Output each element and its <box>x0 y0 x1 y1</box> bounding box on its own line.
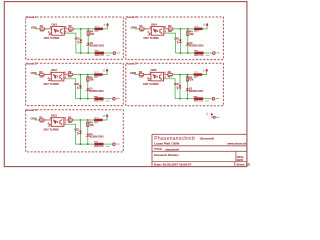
junction bottom zener <box>87 98 89 100</box>
wire LED branch vertical <box>79 120 81 144</box>
op-amp / optocoupler OK2 body <box>51 72 64 81</box>
pad label <box>117 52 120 55</box>
net name OUT3 <box>106 145 110 148</box>
svg-text:OK5: OK5 <box>151 68 157 72</box>
OK3 internal phototransistor <box>60 119 62 125</box>
label Kanal 5 <box>126 62 135 65</box>
+5V supply feed symbol <box>206 112 208 115</box>
resistor R4 (base) vertical <box>87 31 89 35</box>
ground symbol at OK5 pin 2 <box>148 80 151 82</box>
svg-text:BZX55-C5V1: BZX55-C5V1 <box>90 44 105 47</box>
+5V label <box>203 69 205 72</box>
label Kanal 3 <box>26 108 35 111</box>
wire CN3 input <box>35 119 40 121</box>
wire R2 to +5V rail <box>173 28 195 30</box>
junction bottom LED <box>179 98 181 100</box>
wire R3 to +5V arrow <box>202 72 207 75</box>
label Kanal 1 <box>26 16 35 19</box>
svg-text:Sheet: 2/2: Sheet: 2/2 <box>236 163 250 167</box>
svg-text:Kanal 1: Kanal 1 <box>26 15 37 19</box>
wire OK4 collector to R2 <box>164 28 168 30</box>
pin 2 stub to ground <box>49 78 51 80</box>
wire R3 to +5V arrow <box>102 72 107 75</box>
ground symbol at OK3 pin 2 <box>48 125 51 127</box>
junction bottom LED <box>80 143 82 145</box>
+5V label <box>104 23 106 26</box>
junction bottom zener <box>187 52 189 54</box>
junction node LED branch <box>180 28 182 30</box>
LED LED5 <box>179 85 182 88</box>
+5V supply arrow <box>106 23 109 26</box>
OK1 internal phototransistor <box>60 28 62 34</box>
wire R5 to pad <box>203 98 212 100</box>
svg-text:OK1: OK1 <box>51 22 57 26</box>
LED LED4 <box>179 40 182 43</box>
svg-text:10k: 10k <box>90 33 95 36</box>
+5V supply arrow <box>205 68 208 71</box>
junction node zener branch <box>187 74 189 76</box>
OK1 internal LED symbol <box>53 29 56 33</box>
resistor R3 (pull-up) <box>194 28 202 30</box>
pad label <box>216 97 219 100</box>
svg-text:BZX55-C5V1: BZX55-C5V1 <box>90 90 105 93</box>
resistor R3 (pull-up) <box>95 28 103 30</box>
svg-text:OK4: OK4 <box>151 22 157 26</box>
svg-text:10k: 10k <box>90 79 95 82</box>
bottom wire to output <box>76 52 95 54</box>
net name OUT5 <box>205 100 209 103</box>
op-amp / optocoupler OK1 body <box>52 27 65 36</box>
wire R3 to +5V arrow <box>103 26 108 29</box>
junction bottom LED <box>180 52 182 54</box>
wire zener branch vertical <box>186 75 188 99</box>
junction node LED branch <box>80 74 82 76</box>
resistor R2 (series) <box>168 28 173 30</box>
wire LED branch vertical <box>80 29 82 53</box>
wire OK2 collector to R2 <box>64 74 68 76</box>
+5V label <box>103 114 105 117</box>
svg-text:LED: LED <box>74 83 79 86</box>
zener diode D2 <box>87 88 90 90</box>
bottom wire to output <box>176 52 195 54</box>
wire R3 to +5V arrow <box>202 26 207 29</box>
svg-text:BZX55-C5V1: BZX55-C5V1 <box>190 44 205 47</box>
junction node zener branch <box>87 28 89 30</box>
wire zener branch vertical <box>87 75 89 99</box>
resistor R4 (base) vertical <box>87 77 89 81</box>
wire CN4 input <box>135 28 140 30</box>
junction node LED branch <box>80 119 82 121</box>
zener diode D3 <box>87 134 90 136</box>
OK2 internal LED symbol <box>53 75 56 79</box>
pin 2 stub to ground <box>49 123 51 125</box>
wire LED branch vertical <box>179 75 181 99</box>
OK3 internal arrows <box>57 121 59 123</box>
pad SL1 <box>113 52 116 55</box>
LED LED3 <box>79 131 82 134</box>
resistor R3 (pull-up) <box>94 74 102 76</box>
+5V supply arrow <box>206 23 209 26</box>
svg-text:10k: 10k <box>190 33 195 36</box>
wire R1 to OK4 pin 1 <box>144 28 151 30</box>
wire R2 to +5V rail <box>73 74 95 76</box>
svg-text:10k: 10k <box>90 124 95 127</box>
+5V supply arrow <box>106 68 109 71</box>
pad SL2 <box>113 97 116 100</box>
net name OUT1 <box>106 54 110 57</box>
svg-text:LED: LED <box>174 83 179 86</box>
wire R1 to OK3 pin 1 <box>44 119 51 121</box>
wire LED branch vertical <box>179 29 181 53</box>
channel block Kanal 4 dashed boundary <box>126 17 224 60</box>
svg-text:BZX55-C5V1: BZX55-C5V1 <box>189 90 204 93</box>
LED LED1 <box>79 40 82 43</box>
resistor R4 (base) vertical <box>87 122 89 126</box>
junction bottom LED <box>80 52 82 54</box>
OK5 internal LED symbol <box>153 75 156 79</box>
wire OK5 emitter down branch <box>164 78 166 80</box>
svg-text:OK3: OK3 <box>51 114 57 118</box>
ground symbol at OK4 pin 2 <box>148 34 151 36</box>
svg-text:LED: LED <box>75 37 80 40</box>
pad SL6 (+5V input) <box>213 116 215 118</box>
zener diode D4 <box>187 43 190 45</box>
junction bottom zener <box>87 52 89 54</box>
ground symbol at OK1 pin 2 <box>49 34 52 36</box>
resistor R5 (output series) <box>194 98 203 100</box>
junction node zener branch <box>87 74 89 76</box>
label Kanal 4 <box>126 16 135 19</box>
circuit group Kanal 5 <box>130 68 219 101</box>
+5V supply arrow <box>106 114 109 117</box>
svg-text:OK2: OK2 <box>51 68 57 72</box>
pin 2 stub to ground <box>149 78 151 80</box>
channel block Kanal 5 dashed boundary <box>126 63 224 106</box>
circuit group Kanal 3 <box>31 114 120 147</box>
wire R5 to pad <box>103 98 112 100</box>
resistor R4 (base) vertical <box>186 77 188 81</box>
pad label <box>216 52 219 55</box>
OK2 internal arrows <box>57 76 59 78</box>
svg-text:Kanal 3: Kanal 3 <box>26 108 37 112</box>
resistor R1 (Kanal 2 input) <box>40 74 45 76</box>
pad SL3 <box>113 143 116 146</box>
circuit group Kanal 1 <box>31 22 120 55</box>
circuit group Kanal 2 <box>31 68 120 101</box>
pin 2 stub to ground <box>50 32 52 34</box>
wire +5V to pad <box>211 115 213 117</box>
wire OK1 collector to R2 <box>64 28 68 30</box>
LED LED2 <box>79 85 82 88</box>
OK3 internal LED symbol <box>53 120 56 124</box>
resistor R5 (output series) <box>195 52 204 54</box>
svg-text:Date: 09.03.2007 13:09:07: Date: 09.03.2007 13:09:07 <box>154 163 192 167</box>
OK4 internal LED symbol <box>153 29 156 33</box>
wire zener branch vertical <box>187 29 189 53</box>
ground symbol at OK2 pin 2 <box>48 80 51 82</box>
OK1 internal arrows <box>57 30 59 32</box>
svg-text:steuerteil: steuerteil <box>165 147 179 151</box>
wire OK5 collector to R2 <box>164 74 168 76</box>
resistor R2 (series) <box>68 74 73 76</box>
svg-text:Kanal 4: Kanal 4 <box>126 15 137 19</box>
bottom wire to output <box>76 143 95 145</box>
circuit group Kanal 4 <box>131 22 220 55</box>
resistor R3 (pull-up) <box>94 119 102 121</box>
OK4 internal arrows <box>157 30 159 32</box>
wire zener branch vertical <box>87 29 89 53</box>
resistor R5 (output series) <box>95 52 104 54</box>
bottom wire to output <box>175 98 194 100</box>
wire OK3 emitter down branch <box>64 123 66 125</box>
pad label <box>116 97 119 100</box>
wire OK3 collector to R2 <box>64 119 68 121</box>
OK5 internal arrows <box>156 76 158 78</box>
pad SL4 <box>213 52 216 55</box>
resistor R2 (series) <box>69 28 74 30</box>
wire CN1 input <box>35 28 40 30</box>
wire R3 to +5V arrow <box>102 118 107 121</box>
junction node zener branch <box>187 28 189 30</box>
outer sheet frame <box>4 2 247 167</box>
label Kanal 2 <box>26 62 35 65</box>
op-amp / optocoupler OK5 body <box>151 72 164 81</box>
svg-text:Kanal 5: Kanal 5 <box>126 62 137 66</box>
resistor R5 (output series) <box>95 143 104 145</box>
channel block Kanal 3 dashed boundary <box>26 110 124 152</box>
OK5 internal phototransistor <box>159 74 161 80</box>
wire LED branch vertical <box>79 75 81 99</box>
junction node LED branch <box>179 74 181 76</box>
svg-text:LED: LED <box>174 37 179 40</box>
junction node zener branch <box>87 119 89 121</box>
wire zener branch vertical <box>87 120 89 144</box>
resistor R3 (pull-up) <box>194 74 202 76</box>
zener diode D1 <box>87 43 90 45</box>
pad SL5 <box>212 97 215 100</box>
wire R1 to OK5 pin 1 <box>144 74 151 76</box>
channel block Kanal 2 dashed boundary <box>26 63 124 105</box>
resistor R1 (Kanal 5 input) <box>139 74 144 76</box>
pin 2 stub to ground <box>149 32 151 34</box>
resistor R1 (Kanal 3 input) <box>40 119 45 121</box>
channel block Kanal 1 dashed boundary <box>26 17 124 59</box>
wire R1 to OK2 pin 1 <box>44 74 51 76</box>
svg-text:LED: LED <box>74 128 79 131</box>
svg-text:10k: 10k <box>189 79 194 82</box>
bottom wire to output <box>76 98 95 100</box>
junction bottom zener <box>187 98 189 100</box>
resistor R1 (Kanal 4 input) <box>140 28 145 30</box>
wire R5 to pad <box>103 143 112 145</box>
resistor R1 (Kanal 1 input) <box>40 28 45 30</box>
resistor R2 (series) <box>68 119 73 121</box>
wire R2 to +5V rail <box>73 119 95 121</box>
op-amp / optocoupler OK3 body <box>51 118 64 127</box>
title block frame <box>151 134 153 166</box>
wire OK4 emitter down branch <box>164 32 166 34</box>
wire CN5 input <box>135 74 140 76</box>
svg-text:Kanal 2: Kanal 2 <box>26 61 37 65</box>
OK2 internal phototransistor <box>60 74 62 80</box>
pad label <box>116 143 119 146</box>
net name OUT4 <box>206 54 210 57</box>
junction node LED branch <box>80 28 82 30</box>
wire R5 to pad <box>203 52 212 54</box>
resistor R4 (base) vertical <box>187 31 189 35</box>
+5V label <box>203 23 205 26</box>
svg-text:Lucas Pleß / 2006: Lucas Pleß / 2006 <box>154 141 179 145</box>
wire R1 to OK1 pin 1 <box>45 28 52 30</box>
wire OK2 emitter down branch <box>64 78 66 80</box>
wire R2 to +5V rail <box>73 28 95 30</box>
svg-text:BZX55-C5V1: BZX55-C5V1 <box>90 136 105 139</box>
zener diode D5 <box>186 88 189 90</box>
+5V label <box>103 69 105 72</box>
wire R5 to pad <box>104 52 113 54</box>
junction bottom zener <box>87 143 89 145</box>
net name OUT2 <box>106 100 110 103</box>
op-amp / optocoupler OK4 body <box>151 27 164 36</box>
resistor R2 (series) <box>168 74 173 76</box>
resistor R5 (output series) <box>95 98 104 100</box>
wire CN2 input <box>35 74 40 76</box>
wire R2 to +5V rail <box>172 74 194 76</box>
OK4 internal phototransistor <box>160 28 162 34</box>
wire OK1 emitter down branch <box>64 32 66 34</box>
junction bottom LED <box>80 98 82 100</box>
